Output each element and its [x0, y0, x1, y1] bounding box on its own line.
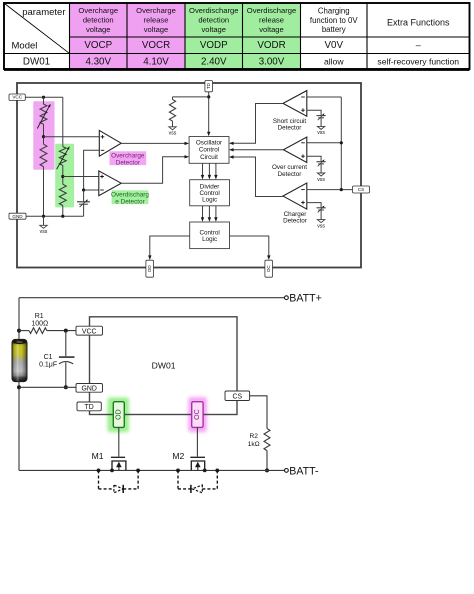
svg-text:1kΩ: 1kΩ: [248, 441, 260, 448]
pin TD (top): [205, 81, 213, 92]
wire CS sense bus: [340, 97, 342, 190]
ground vss below TD resistor: [169, 127, 177, 137]
block Control Logic: [190, 222, 230, 249]
wire overdischarge comparator + input: [63, 176, 99, 178]
pin VCC (block): [9, 94, 25, 100]
node M1 source: [110, 469, 114, 473]
resistor green lower: [59, 184, 66, 205]
svg-text:OD: OD: [115, 409, 122, 420]
comparator over current detector: [283, 137, 306, 163]
svg-text:Logic: Logic: [202, 236, 217, 243]
wires oscillator to divider (3 arrows): [201, 163, 218, 179]
svg-text:4.30V: 4.30V: [85, 56, 111, 67]
pin TD (app): [77, 402, 101, 411]
table background green columns: [185, 3, 301, 69]
reference source over current detector: [307, 156, 326, 183]
svg-text:Detector: Detector: [283, 217, 307, 224]
wire battery negative lead: [18, 381, 20, 470]
node M1 body left: [97, 469, 101, 473]
svg-text:OD: OD: [147, 265, 152, 273]
resistor R2: [264, 429, 270, 471]
label Over current Detector: [272, 164, 307, 178]
table column Extra Functions: [377, 18, 459, 67]
wires divider to control logic (3 arrows): [201, 206, 218, 222]
terminal BATT-: [285, 465, 320, 477]
label R2 1kohm: [248, 433, 260, 448]
highlight green overdischarge sense resistors: [55, 144, 74, 208]
svg-text:Overdischarge: Overdischarge: [189, 6, 238, 15]
node M2 body left: [176, 469, 180, 473]
comparator charger detector: [283, 183, 307, 209]
svg-text:BATT+: BATT+: [289, 293, 321, 305]
svg-text:Detector: Detector: [278, 171, 302, 178]
svg-text:vss: vss: [317, 223, 325, 229]
svg-text:Control: Control: [199, 147, 219, 154]
pin CS (app): [225, 391, 250, 401]
svg-text:DW01: DW01: [152, 361, 176, 371]
variable resistor (overcharge trip, pink): [37, 104, 50, 129]
resistor R1: [19, 328, 76, 334]
svg-text:VOCR: VOCR: [142, 40, 170, 51]
op-amp U2 overdischarge detector: [99, 171, 121, 196]
wire pink string middle: [43, 124, 45, 144]
svg-text:Overcharge: Overcharge: [78, 6, 118, 15]
table column VOCR: [136, 6, 176, 67]
svg-text:Oscillator: Oscillator: [196, 140, 222, 147]
node R1 tap: [17, 329, 21, 333]
wire over current - input to CS bus: [307, 142, 342, 144]
svg-text:Detector: Detector: [278, 125, 302, 132]
highlight pink overcharge sense resistors: [33, 101, 54, 169]
resistor pink lower: [40, 144, 47, 166]
wire charger output to oscillator: [229, 155, 283, 196]
wire BATT- rail: [19, 469, 285, 471]
svg-text:release: release: [259, 16, 284, 25]
op-amp U1 overcharge detector: [99, 130, 121, 156]
svg-text:vss: vss: [317, 130, 325, 136]
wire green string feed: [62, 97, 64, 146]
svg-text:Circuit: Circuit: [200, 154, 218, 161]
svg-text:DW01: DW01: [23, 56, 50, 67]
table background pink columns: [70, 3, 186, 69]
svg-text:M1: M1: [92, 451, 104, 461]
svg-text:VCC: VCC: [12, 95, 22, 100]
wire U2 output to oscillator: [121, 157, 185, 183]
svg-text:VCC: VCC: [82, 328, 97, 335]
svg-text:Model: Model: [12, 41, 38, 52]
node GND tap: [17, 385, 21, 389]
wire GND rail: [26, 215, 84, 217]
block Oscillator Control Circuit: [189, 137, 229, 164]
svg-text:Charging: Charging: [318, 7, 350, 16]
svg-text:function to 0V: function to 0V: [310, 16, 358, 25]
wire short circuit output to oscillator: [229, 104, 283, 146]
node CS bus - over current: [340, 141, 343, 144]
svg-text:4.10V: 4.10V: [143, 56, 169, 67]
highlight glow OC pin: [188, 397, 207, 432]
svg-text:CS: CS: [358, 187, 364, 192]
svg-text:OC: OC: [266, 265, 271, 273]
table header diagonal cell parameter/Model: [5, 4, 70, 54]
pin VCC (app): [76, 326, 103, 335]
pin OC (app, magenta): [192, 402, 203, 428]
reference source charger detector: [307, 203, 326, 230]
svg-text:–: –: [416, 40, 421, 50]
svg-text:OC: OC: [194, 409, 201, 420]
pin GND (app): [76, 384, 103, 393]
svg-text:vss: vss: [40, 229, 48, 235]
svg-text:BATT-: BATT-: [289, 465, 319, 477]
body diode M2 (dashed): [178, 470, 217, 493]
svg-text:Overdischarge: Overdischarge: [247, 6, 296, 15]
svg-text:TD: TD: [206, 82, 211, 89]
svg-text:C1: C1: [44, 354, 53, 361]
wire U1 output to oscillator: [121, 142, 185, 144]
wire control logic to OC pin: [230, 236, 271, 260]
wire green string middle: [62, 165, 64, 184]
svg-text:TD: TD: [85, 404, 94, 411]
wire BATT+ rail: [19, 297, 284, 299]
svg-text:VOCP: VOCP: [84, 40, 112, 51]
svg-text:allow: allow: [324, 56, 344, 66]
terminal BATT+: [285, 293, 322, 305]
svg-text:battery: battery: [322, 25, 346, 34]
svg-text:CS: CS: [233, 393, 243, 400]
transistor M1: [111, 457, 126, 470]
svg-text:voltage: voltage: [144, 25, 169, 34]
wire overcharge comparator - input: [84, 150, 100, 190]
reference source short circuit detector: [307, 110, 326, 136]
pin OD (app, green): [113, 402, 124, 428]
svg-text:voltage: voltage: [202, 25, 227, 34]
node CS bus - charger: [340, 188, 343, 191]
pin OC (block): [265, 260, 273, 277]
wire TD branch to bias resistor: [173, 96, 209, 98]
label Charger Detector: [283, 211, 307, 224]
wire CS to R2: [250, 396, 267, 429]
pin GND (block): [9, 213, 26, 219]
node green-GND junction: [61, 215, 64, 218]
node pink-GND junction: [42, 215, 45, 218]
wire short circuit - input to CS bus: [307, 96, 342, 98]
svg-text:detection: detection: [83, 16, 114, 25]
svg-text:100Ω: 100Ω: [31, 321, 48, 328]
label Short circuit Detector: [273, 118, 306, 131]
svg-text:Logic: Logic: [202, 197, 217, 204]
table column VODP: [189, 6, 238, 67]
wire over current output to oscillator: [233, 149, 283, 151]
svg-text:Detector: Detector: [116, 159, 141, 166]
svg-text:Extra Functions: Extra Functions: [387, 18, 450, 28]
node overdischarge tap: [61, 175, 64, 178]
svg-text:self-recovery function: self-recovery function: [377, 56, 459, 66]
svg-text:VODR: VODR: [257, 40, 285, 51]
block Divider Control Logic: [190, 180, 230, 206]
table column VODR: [247, 6, 296, 67]
node C1 bottom: [64, 385, 68, 389]
node C1 top: [64, 329, 68, 333]
ground vss below GND rail: [40, 216, 48, 235]
wire TD pin to oscillator: [208, 92, 210, 133]
table inner horizontal lines: [4, 37, 470, 54]
variable resistor (overdischarge trip, green): [57, 146, 70, 169]
table column VOCP: [78, 6, 118, 67]
svg-text:M2: M2: [172, 451, 184, 461]
svg-text:Overcharge: Overcharge: [136, 6, 176, 15]
wire pink string top lead: [43, 97, 45, 104]
node comparator reference junction: [82, 188, 85, 191]
table column charging function to 0V battery: [310, 7, 358, 67]
node TD branch: [207, 95, 210, 98]
node VCC-R string junction: [42, 96, 45, 99]
wire charger - input to CS pin: [307, 189, 353, 191]
body diode M1 (dashed): [99, 470, 139, 493]
comparator short circuit detector: [283, 91, 307, 117]
wire control logic to OD pin: [148, 236, 190, 260]
label Overcharge Detector: [110, 151, 147, 166]
label R1 100ohm: [31, 313, 48, 328]
svg-text:release: release: [144, 16, 169, 25]
svg-text:3.00V: 3.00V: [259, 56, 285, 67]
svg-text:voltage: voltage: [86, 25, 111, 34]
svg-text:R2: R2: [249, 433, 258, 440]
svg-text:vss: vss: [169, 131, 177, 137]
svg-text:R1: R1: [35, 313, 44, 320]
svg-text:GND: GND: [12, 214, 23, 219]
svg-text:parameter: parameter: [22, 7, 65, 18]
wire VCC rail: [25, 96, 63, 98]
svg-text:e Detector: e Detector: [115, 198, 145, 205]
node overcharge tap: [42, 135, 45, 138]
svg-text:detection: detection: [198, 16, 229, 25]
svg-text:0.1μF: 0.1μF: [39, 361, 57, 368]
label Overdischarge Detector: [111, 190, 149, 205]
wire green string bottom lead: [62, 206, 64, 217]
highlight glow OD pin: [108, 398, 130, 433]
IC DW01 outline: [90, 317, 238, 415]
svg-text:2.40V: 2.40V: [201, 56, 227, 67]
wire OC to M2 gate: [196, 427, 198, 456]
label C1 0.1uF: [39, 354, 57, 368]
table inner vertical lines: [70, 3, 368, 69]
transistor M2: [190, 457, 205, 470]
svg-text:GND: GND: [82, 386, 97, 393]
pin OD (block): [146, 260, 154, 277]
IC internal block boundary: [17, 83, 361, 268]
wire battery positive lead: [18, 298, 20, 341]
svg-text:vss: vss: [317, 177, 325, 183]
wire overcharge comparator + input: [44, 136, 100, 138]
wire GND lead: [19, 386, 76, 388]
node R2-BATT- junction: [265, 468, 269, 472]
table outer border: [4, 3, 470, 69]
svg-text:V0V: V0V: [324, 40, 343, 51]
node M2 body right: [215, 469, 219, 473]
wire OD to M1 gate: [118, 427, 120, 456]
node M2 source: [203, 469, 207, 473]
capacitor C1: [59, 331, 75, 388]
reference source for comparators (left): [77, 190, 90, 216]
pin CS (block): [353, 186, 370, 193]
wire pink string bottom lead: [43, 167, 45, 217]
svg-text:VODP: VODP: [200, 40, 228, 51]
battery cell: [12, 339, 27, 381]
node M1 body right: [136, 469, 140, 473]
wire overdischarge comparator - input: [84, 189, 99, 191]
svg-text:voltage: voltage: [259, 25, 284, 34]
resistor TD bias: [169, 97, 175, 127]
